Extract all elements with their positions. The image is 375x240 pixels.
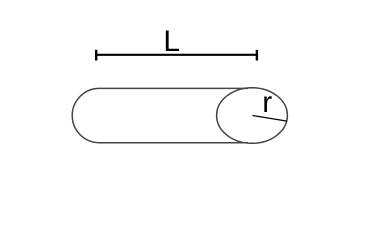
svg-text:L: L [163,25,180,58]
svg-text:r: r [262,86,272,119]
